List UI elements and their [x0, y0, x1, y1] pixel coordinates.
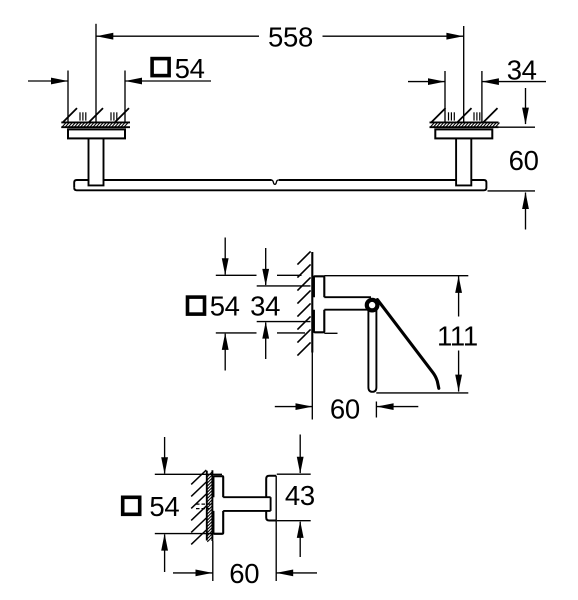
extension line right post centre	[463, 26, 465, 122]
dimension 54 arrows (mid)	[222, 258, 229, 275]
square symbol 54 (mid)	[188, 297, 205, 314]
dimension 43 arrows	[297, 457, 304, 474]
pivot circle (paper holder)	[367, 300, 378, 311]
svg-text:60: 60	[509, 145, 539, 176]
svg-text:43: 43	[285, 480, 315, 511]
square symbol 54 (hook)	[123, 497, 140, 514]
wall line (paper holder)	[311, 252, 313, 353]
dimension 54 arrows (top)	[51, 78, 68, 85]
dimension 60 arrows (hook)	[196, 570, 213, 577]
dimension 60 extension lines (hook)	[212, 541, 214, 581]
flap (paper holder)	[377, 300, 438, 389]
dimension 60 lines (hook)	[173, 572, 213, 574]
dimension 34 arrows (mid)	[262, 269, 269, 286]
wall plate (hook)	[213, 476, 223, 534]
dimension 34 arrow lines (mid)	[265, 248, 267, 285]
left post (towel bar)	[89, 138, 104, 185]
svg-text:60: 60	[229, 558, 259, 589]
svg-text:54: 54	[175, 53, 205, 84]
hook body	[266, 476, 276, 521]
hook body right edge	[275, 476, 277, 521]
holder arm (paper holder)	[324, 296, 371, 298]
wall plate (paper holder)	[314, 276, 324, 332]
svg-text:34: 34	[507, 55, 537, 86]
dimension 111 extension lines	[324, 275, 468, 277]
dimension 60 arrows (top right)	[522, 108, 529, 125]
hidden fixing lines (hook)	[196, 503, 213, 505]
dimension 43 extension lines	[277, 473, 311, 475]
fine wall hatch (hook)	[207, 472, 212, 542]
plate bottom stub (paper holder)	[324, 332, 337, 334]
dimension 54 extension lines (top)	[67, 71, 69, 123]
wall hatch (hook)	[191, 470, 206, 544]
dimension 60 arrow lines (top right)	[525, 88, 527, 124]
left wall plate (towel bar)	[68, 129, 125, 138]
svg-text:60: 60	[330, 393, 360, 424]
wall hatch left (towel bar)	[61, 108, 130, 128]
dimension 60 extension lines (top right)	[499, 126, 536, 128]
dimension 54 arrows (hook)	[161, 457, 168, 474]
svg-text:558: 558	[268, 22, 313, 53]
hook arm end edge	[270, 497, 272, 511]
dimension 111 arrows	[455, 276, 462, 293]
dimension 43 arrow lines	[299, 435, 301, 474]
svg-text:111: 111	[437, 320, 478, 351]
towel bar rail	[74, 180, 88, 188]
dimension 54 extension lines (mid)	[216, 274, 257, 276]
hook arm	[223, 496, 270, 498]
wall hatch (paper holder)	[297, 251, 310, 355]
wall double lines (hook)	[206, 471, 208, 541]
dimension 54 extension lines (hook)	[155, 473, 222, 475]
right wall plate (towel bar)	[435, 129, 492, 138]
svg-text:54: 54	[210, 291, 240, 322]
bar break symbol	[272, 180, 279, 184]
dimension 34 lines (top)	[408, 81, 445, 83]
dimension 34 extension lines (top)	[444, 71, 446, 122]
dimension 34 extension lines (mid)	[257, 285, 311, 287]
svg-text:54: 54	[149, 491, 179, 522]
dimension 60 extension line (mid)	[375, 402, 377, 418]
dimension 558 arrows	[96, 33, 113, 40]
dimension 34 arrows (top)	[428, 78, 445, 85]
dimension 54 arrow lines (mid)	[224, 238, 226, 275]
square symbol 54 (top)	[152, 59, 169, 76]
dimension 54 lines (top)	[28, 80, 68, 82]
svg-text:34: 34	[250, 291, 280, 322]
dimension 60 lines (mid)	[275, 406, 313, 408]
dimension 60 arrows (mid)	[296, 403, 313, 410]
right post (towel bar)	[456, 138, 471, 185]
dimension 558 line	[96, 35, 259, 37]
roller tube (paper holder)	[368, 308, 376, 392]
dimension 111 line	[458, 276, 460, 317]
extension line left post centre	[95, 24, 97, 122]
wall hatch right (towel bar)	[430, 108, 500, 128]
dimension 54 arrow lines (hook)	[164, 437, 166, 474]
